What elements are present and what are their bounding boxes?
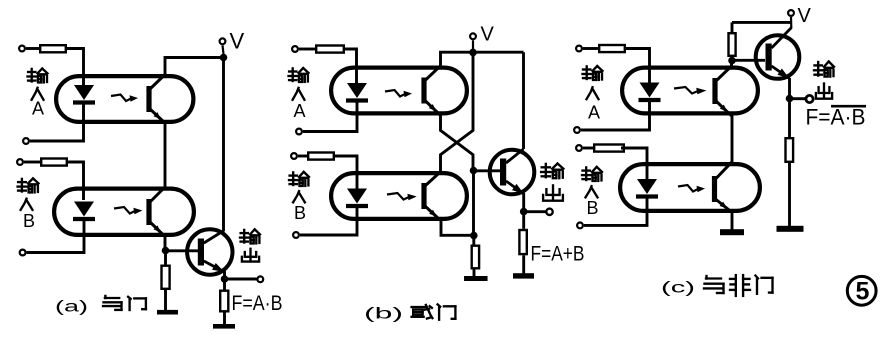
wire base node to Q2 base (b) xyxy=(474,169,501,172)
resistor input A (b) xyxy=(316,46,344,53)
svg-text:A: A xyxy=(32,99,44,119)
input A return terminal (c) xyxy=(574,127,580,133)
resistor input A (a) xyxy=(40,45,66,52)
wire node to Q3 base (c) xyxy=(732,59,765,62)
caption (a) AND gate xyxy=(55,296,146,316)
label F=A.B (a) xyxy=(232,291,283,315)
circuit (b) input B terminal xyxy=(291,153,297,159)
wire U2 emitter to base node (a) xyxy=(164,237,167,250)
junction base node (a) xyxy=(162,247,170,255)
caption (c) NAND gate xyxy=(661,275,773,296)
svg-text:(c): (c) xyxy=(661,280,695,297)
figure number badge 5 xyxy=(847,276,876,305)
phototransistor of U3 (b) xyxy=(421,66,440,116)
ground output (c) xyxy=(777,226,804,232)
wire resistor A to LED anode (c) xyxy=(626,49,650,84)
wire Q2 collector to V rail (b) xyxy=(522,52,525,149)
wire U1 collector to V rail (a) xyxy=(165,58,224,75)
svg-text:F=A·B: F=A·B xyxy=(232,291,283,315)
wire resistor A to LED anode (b) xyxy=(343,49,357,84)
base resistor (a) xyxy=(162,266,170,289)
svg-text:(a): (a) xyxy=(55,299,88,316)
wire Q2 emitter to output node (b) xyxy=(522,193,525,209)
ground U6 emitter (c) xyxy=(720,229,744,235)
circuit (a) input B terminal xyxy=(17,159,23,165)
wire A return to LED cathode (b) xyxy=(303,102,357,132)
svg-text:V: V xyxy=(230,29,245,54)
wire input B to resistor (b) xyxy=(298,155,307,158)
wire output node to terminal (c) xyxy=(790,97,806,100)
ground base resistor (a) xyxy=(157,310,178,315)
label input B (b) xyxy=(289,172,309,223)
svg-text:A: A xyxy=(294,101,306,121)
label F=NOT(A.B) (c) xyxy=(806,105,867,130)
optocoupler U4 body (b) xyxy=(331,173,467,219)
LED of U3 (b) xyxy=(346,83,368,101)
caption (b) OR gate xyxy=(364,304,455,322)
wire resistor A to LED anode (a) xyxy=(67,49,84,87)
svg-text:F=A+B: F=A+B xyxy=(531,242,585,266)
V supply terminal (b) xyxy=(470,33,476,49)
wire U6 emitter to ground (c) xyxy=(731,212,734,230)
wire output node to resistor (a) xyxy=(223,281,226,290)
wire input B to resistor (a) xyxy=(24,161,40,164)
resistor input B (a) xyxy=(41,159,67,166)
input B return terminal (c) xyxy=(577,223,583,229)
base resistor (b) xyxy=(472,238,479,277)
junction base node (b) xyxy=(470,167,478,175)
label V (b) xyxy=(481,24,495,46)
output transistor Q3 (c) xyxy=(756,28,800,79)
input A return terminal (a) xyxy=(23,138,29,144)
output resistor (a) xyxy=(220,291,228,312)
svg-text:V: V xyxy=(481,24,495,46)
svg-text:B: B xyxy=(23,211,35,231)
resistor input B (b) xyxy=(308,153,334,160)
svg-text:(b): (b) xyxy=(364,306,403,323)
wire resistor B to LED anode (a) xyxy=(68,162,84,200)
wire U5 collector to node (c) xyxy=(730,58,733,66)
wire base node to Q1 base (a) xyxy=(166,249,200,252)
wire U3 emitter cross to base node (b) xyxy=(441,115,474,168)
wire base node down to emitter node (b) xyxy=(472,171,475,236)
wire output resistor to ground (c) xyxy=(788,163,791,226)
phototransistor of U4 (b) xyxy=(421,171,441,221)
wire resistor B to LED anode (b) xyxy=(335,156,357,190)
V supply terminal (a) xyxy=(220,38,226,54)
optocoupler U6 body (c) xyxy=(620,164,760,211)
wire input A to resistor (c) xyxy=(583,47,598,50)
wire resistor to ground (a) xyxy=(164,290,167,311)
output transistor Q1 (a) xyxy=(187,229,232,274)
label input B (c) xyxy=(582,167,602,218)
LED of U6 (c) xyxy=(636,179,658,197)
output terminal (a) xyxy=(257,276,263,282)
optocoupler U5 body (c) xyxy=(622,68,758,114)
resistor input B (c) xyxy=(594,145,624,152)
label input A (b) xyxy=(289,68,309,121)
resistor input A (c) xyxy=(599,45,625,52)
light arrow U1 (a) xyxy=(111,95,138,102)
svg-text:V: V xyxy=(798,5,812,27)
wire resistor B to LED anode (c) xyxy=(621,148,647,180)
V supply terminal (c) xyxy=(788,10,794,28)
optocoupler U2 body (a) xyxy=(54,189,194,235)
input B return terminal (a) xyxy=(20,250,26,256)
svg-text:A: A xyxy=(588,103,600,123)
label F=A+B (b) xyxy=(531,242,585,266)
LED of U1 (a) xyxy=(73,85,95,103)
wire Q3 emitter to output node (c) xyxy=(788,78,791,95)
wire A return to LED cathode (c) xyxy=(581,101,650,130)
wire output node to terminal (a) xyxy=(225,278,257,281)
output terminal (c) xyxy=(806,95,813,102)
wire B return to LED cathode (c) xyxy=(584,198,647,225)
LED of U2 (a) xyxy=(73,202,95,220)
label V (a) xyxy=(230,29,245,54)
label V (c) xyxy=(798,5,812,27)
output terminal (b) xyxy=(546,209,552,215)
LED of U5 (c) xyxy=(639,83,661,101)
output transistor Q2 (b) xyxy=(490,149,535,194)
LED of U4 (b) xyxy=(346,189,368,207)
wire B return to LED cathode (a) xyxy=(27,221,84,253)
circuit (b) input A terminal xyxy=(292,46,298,52)
svg-text:B: B xyxy=(587,198,599,218)
wire resistor top to V (c) xyxy=(732,21,792,24)
wire V rail down to Q1 collector (a) xyxy=(222,58,225,232)
svg-text:5: 5 xyxy=(856,278,870,306)
junction output node (a) xyxy=(221,275,229,283)
input A return terminal (b) xyxy=(296,129,302,135)
junction V node (a) xyxy=(220,54,228,62)
junction output node (b) xyxy=(520,208,528,216)
svg-text:F=A·B: F=A·B xyxy=(806,105,866,130)
label output (a) xyxy=(240,229,260,261)
label input B (a) xyxy=(18,178,39,231)
phototransistor of U5 (c) xyxy=(712,66,731,116)
ground output (b) xyxy=(513,273,534,278)
wire U5 emitter to U6 collector (c) xyxy=(731,116,734,163)
junction V node (b) xyxy=(469,49,477,57)
wire output node to resistor (c) xyxy=(788,101,791,137)
input B return terminal (b) xyxy=(293,232,299,238)
label output (c) xyxy=(814,62,834,99)
light arrow U6 (c) xyxy=(678,185,705,192)
wire V rail cross to U4 collector (b) xyxy=(441,52,474,171)
wire B return to LED cathode (b) xyxy=(300,207,357,235)
wire input A to resistor (b) xyxy=(299,48,315,51)
wire U4 emitter to emitter node (b) xyxy=(441,221,471,236)
light arrow U2 (a) xyxy=(114,207,142,214)
wire input B to resistor (c) xyxy=(583,147,593,150)
label output (b) xyxy=(541,164,563,201)
output resistor (c) xyxy=(786,138,794,162)
light arrow U3 (b) xyxy=(385,90,412,97)
output resistor (b) xyxy=(519,214,526,273)
wire input A to resistor (a) xyxy=(26,47,39,50)
ground base resistor (b) xyxy=(464,276,488,281)
label input A (a) xyxy=(28,69,48,119)
phototransistor of U6 (c) xyxy=(712,162,732,212)
circuit (c) input A terminal xyxy=(576,46,582,52)
circuit (c) input B terminal xyxy=(576,145,582,151)
svg-text:B: B xyxy=(294,203,306,223)
phototransistor of U1 (a) xyxy=(146,75,165,124)
wire Q1 emitter to output node (a) xyxy=(223,271,226,277)
light arrow U4 (b) xyxy=(387,193,417,200)
wire U3 collector to V rail (b) xyxy=(441,52,524,65)
wire output resistor to ground (a) xyxy=(223,313,226,325)
junction output node (c) xyxy=(786,95,794,103)
optocoupler U3 body (b) xyxy=(331,68,467,114)
junction emitter node (b) xyxy=(470,232,478,240)
wire A return to LED cathode (a) xyxy=(30,104,84,141)
label input A (c) xyxy=(583,66,603,123)
wire U1 emitter to U2 collector (a) xyxy=(164,124,167,188)
junction base node (c) xyxy=(728,57,736,65)
wire output node to terminal (b) xyxy=(524,210,546,213)
light arrow U5 (c) xyxy=(674,87,706,94)
wire base node to resistor (a) xyxy=(164,253,167,265)
circuit (a) input A terminal xyxy=(19,46,25,52)
pull-up resistor (c) xyxy=(729,22,736,55)
phototransistor of U2 (a) xyxy=(146,187,165,237)
ground output (a) xyxy=(213,324,235,329)
optocoupler U1 body (a) xyxy=(56,76,193,122)
